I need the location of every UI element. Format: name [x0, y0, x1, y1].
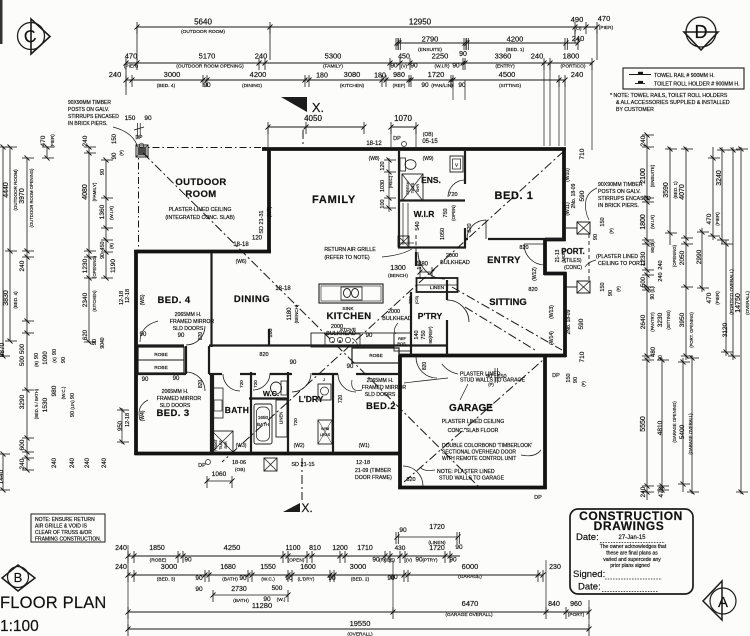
svg-text:WITH REMOTE CONTROL UNIT: WITH REMOTE CONTROL UNIT	[442, 456, 516, 462]
svg-text:3970: 3970	[19, 188, 26, 204]
svg-text:(CS): (CS)	[414, 295, 419, 304]
svg-text:(BED. 4): (BED. 4)	[157, 83, 176, 89]
svg-text:750: 750	[443, 208, 449, 217]
svg-text:CLEAR OF TRUSS &/OR: CLEAR OF TRUSS &/OR	[35, 530, 92, 536]
svg-text:3080: 3080	[344, 70, 361, 79]
svg-text:(OUTDOOR ROOM OPENING): (OUTDOOR ROOM OPENING)	[29, 168, 34, 227]
svg-text:12-18: 12-18	[356, 460, 370, 466]
svg-text:(PORTICO): (PORTICO)	[561, 64, 586, 70]
svg-text:4500: 4500	[499, 70, 516, 79]
svg-text:SITTING: SITTING	[489, 297, 526, 308]
svg-text:(W10): (W10)	[565, 168, 571, 182]
svg-text:90: 90	[347, 364, 354, 370]
svg-text:3950: 3950	[679, 312, 686, 327]
svg-text:90: 90	[70, 393, 76, 399]
svg-text:B: B	[14, 570, 23, 585]
svg-text:The owner acknowledges that: The owner acknowledges that	[600, 544, 667, 550]
svg-text:(PTRY): (PTRY)	[423, 558, 438, 563]
svg-text:90: 90	[52, 349, 58, 355]
svg-text:(PORT. OPENING): (PORT. OPENING)	[689, 312, 694, 348]
svg-text:90: 90	[195, 586, 203, 593]
svg-text:(REFER TO NOTE): (REFER TO NOTE)	[324, 255, 370, 261]
svg-text:(W.I.R): (W.I.R)	[109, 206, 114, 220]
svg-text:90: 90	[290, 360, 297, 366]
svg-text:90: 90	[142, 377, 149, 383]
svg-text:NOTE: ENSURE RETURN: NOTE: ENSURE RETURN	[35, 517, 95, 523]
svg-text:DOUBLE COLORBOND 'TIMBERLOOK': DOUBLE COLORBOND 'TIMBERLOOK'	[442, 443, 532, 449]
svg-text:470: 470	[40, 135, 47, 146]
svg-text:500: 500	[641, 276, 647, 287]
svg-text:SD 21-31: SD 21-31	[259, 210, 265, 233]
svg-text:(FAMILY): (FAMILY)	[92, 182, 97, 201]
svg-text:POS.: POS.	[397, 341, 406, 346]
svg-text:4810: 4810	[657, 420, 664, 435]
svg-text:(P): (P)	[609, 228, 614, 234]
svg-text:A: A	[718, 594, 728, 611]
svg-text:(REF): (REF)	[393, 83, 406, 89]
svg-text:12950: 12950	[409, 18, 432, 27]
svg-text:(SITTING): (SITTING)	[499, 83, 522, 89]
svg-text:DP: DP	[136, 135, 144, 141]
svg-text:500: 500	[272, 585, 283, 592]
svg-text:IN BRICK PIERS.: IN BRICK PIERS.	[598, 203, 639, 209]
svg-text:ENTRY: ENTRY	[487, 255, 521, 266]
svg-text:470: 470	[125, 52, 138, 61]
svg-text:90: 90	[390, 63, 398, 70]
svg-text:1190: 1190	[110, 259, 117, 273]
svg-text:3120: 3120	[722, 322, 729, 337]
svg-text:KITCHEN: KITCHEN	[326, 311, 371, 322]
svg-text:(BED. 1): (BED. 1)	[673, 181, 678, 199]
svg-text:1100: 1100	[285, 545, 300, 552]
svg-text:240: 240	[82, 135, 89, 146]
svg-text:240: 240	[85, 457, 91, 468]
svg-text:ROBE: ROBE	[154, 365, 168, 371]
svg-text:SINK: SINK	[342, 306, 354, 312]
svg-text:90: 90	[184, 557, 192, 564]
svg-text:(ENSUITE): (ENSUITE)	[650, 164, 655, 187]
svg-text:(GARAGE): (GARAGE)	[458, 574, 482, 580]
svg-text:DOOR FRAME): DOOR FRAME)	[355, 475, 392, 481]
svg-text:POSTS ON GALV.: POSTS ON GALV.	[598, 189, 641, 195]
svg-text:(PAN/LIN): (PAN/LIN)	[431, 83, 453, 89]
svg-text:1030: 1030	[380, 180, 386, 192]
svg-text:5400: 5400	[679, 424, 686, 439]
svg-text:(BENCH): (BENCH)	[388, 273, 408, 279]
svg-text:2065MM H.: 2065MM H.	[367, 378, 394, 384]
svg-text:V: V	[455, 163, 458, 168]
svg-text:240: 240	[640, 486, 647, 497]
svg-text:980: 980	[51, 385, 58, 396]
svg-text:ROBE: ROBE	[154, 352, 168, 358]
svg-text:820: 820	[198, 332, 204, 341]
svg-text:BULKHEAD: BULKHEAD	[382, 316, 412, 322]
svg-text:820: 820	[259, 352, 268, 358]
svg-text:19550: 19550	[350, 619, 371, 628]
svg-text:CONC. SLAB FLOOR: CONC. SLAB FLOOR	[448, 428, 499, 434]
svg-text:(W.C.): (W.C.)	[61, 386, 66, 399]
svg-text:SHR: SHR	[416, 184, 420, 192]
svg-text:2640: 2640	[640, 314, 647, 329]
svg-text:5170: 5170	[199, 52, 216, 61]
svg-text:820: 820	[422, 362, 428, 371]
svg-text:4200: 4200	[250, 70, 267, 79]
svg-text:90: 90	[34, 353, 40, 359]
svg-text:(PIER): (PIER)	[50, 134, 55, 148]
svg-text:90: 90	[366, 333, 373, 339]
svg-text:1300: 1300	[390, 265, 406, 272]
svg-text:950: 950	[118, 420, 124, 431]
svg-text:2250: 2250	[432, 52, 449, 61]
svg-text:4200: 4200	[507, 35, 524, 44]
svg-text:230: 230	[549, 564, 561, 571]
svg-text:150: 150	[497, 374, 506, 380]
svg-text:720: 720	[338, 395, 344, 404]
svg-text:ENS.: ENS.	[421, 175, 441, 185]
svg-text:90: 90	[195, 575, 203, 582]
svg-text:(W9): (W9)	[423, 156, 434, 162]
svg-text:(INTEGRATED CONC. SLAB): (INTEGRATED CONC. SLAB)	[165, 215, 235, 221]
svg-text:750: 750	[421, 330, 427, 339]
svg-text:11280: 11280	[252, 601, 272, 610]
svg-text:DRAWINGS: DRAWINGS	[594, 519, 665, 533]
svg-text:100: 100	[380, 199, 386, 208]
svg-text:(LIN): (LIN)	[70, 400, 75, 410]
svg-text:2000: 2000	[331, 324, 343, 330]
svg-text:90: 90	[203, 82, 211, 89]
svg-text:820: 820	[198, 380, 204, 389]
svg-text:DP: DP	[534, 495, 542, 501]
svg-text:240: 240	[658, 272, 664, 281]
svg-text:90X90MM TIMBER: 90X90MM TIMBER	[68, 100, 111, 106]
svg-text:(BED. 3): (BED. 3)	[157, 577, 176, 583]
svg-text:150: 150	[566, 373, 572, 382]
svg-text:J: J	[323, 377, 325, 382]
svg-text:(K): (K)	[52, 357, 57, 363]
svg-text:(PLASTER LINED: (PLASTER LINED	[596, 254, 638, 260]
svg-text:(PANTRY): (PANTRY)	[650, 312, 655, 332]
svg-text:(W6): (W6)	[236, 259, 247, 265]
svg-text:3230: 3230	[657, 312, 664, 327]
svg-text:90: 90	[486, 374, 492, 380]
svg-text:(P): (P)	[581, 381, 586, 387]
svg-text:ROBE: ROBE	[369, 353, 383, 359]
svg-text:8870: 8870	[0, 342, 6, 357]
svg-text:Date:: Date:	[578, 582, 601, 593]
svg-text:90: 90	[100, 253, 106, 259]
svg-text:2No. 18-09: 2No. 18-09	[566, 309, 572, 334]
svg-text:POSTS ON GALV.: POSTS ON GALV.	[68, 107, 109, 113]
svg-text:SLD DOORS: SLD DOORS	[365, 392, 396, 398]
svg-text:SHR: SHR	[224, 441, 228, 449]
svg-text:(W.I.R): (W.I.R)	[650, 215, 655, 229]
svg-text:150: 150	[112, 133, 118, 144]
svg-text:710: 710	[579, 148, 586, 159]
svg-text:180: 180	[374, 73, 386, 80]
svg-text:90: 90	[452, 63, 460, 70]
svg-text:90: 90	[61, 357, 67, 363]
svg-text:1230: 1230	[82, 258, 89, 273]
svg-text:240: 240	[658, 260, 664, 269]
svg-text:(OPEN): (OPEN)	[288, 558, 305, 564]
svg-text:90 (L): 90 (L)	[650, 286, 656, 299]
svg-text:(BATH): (BATH)	[222, 577, 238, 583]
svg-text:12-18: 12-18	[125, 289, 131, 303]
svg-text:(OUTDOOR ROOM): (OUTDOOR ROOM)	[13, 169, 18, 211]
svg-text:240: 240	[109, 70, 122, 79]
svg-text:590: 590	[578, 318, 585, 329]
svg-text:BY CUSTOMER: BY CUSTOMER	[616, 107, 654, 113]
svg-text:STUD WALLS TO GARAGE: STUD WALLS TO GARAGE	[439, 476, 505, 482]
svg-text:140: 140	[414, 330, 420, 339]
svg-text:3290: 3290	[19, 394, 26, 409]
svg-text:2000: 2000	[446, 253, 458, 259]
svg-text:470: 470	[598, 14, 611, 23]
svg-text:GARAGE: GARAGE	[449, 403, 493, 414]
svg-text:TILES: TILES	[411, 182, 415, 193]
svg-text:1720: 1720	[429, 524, 445, 531]
svg-text:(PIER): (PIER)	[715, 291, 720, 305]
svg-text:(OB): (OB)	[235, 467, 246, 473]
svg-text:DINING: DINING	[234, 294, 270, 305]
svg-text:1530: 1530	[42, 397, 49, 412]
svg-text:4050: 4050	[304, 114, 322, 123]
svg-text:SD 21-15: SD 21-15	[291, 462, 314, 468]
svg-text:1180: 1180	[287, 307, 293, 321]
svg-text:SLD DOORS: SLD DOORS	[160, 403, 191, 409]
svg-text:(PORT): (PORT)	[568, 612, 585, 618]
svg-text:DP: DP	[552, 373, 560, 379]
svg-text:(W5): (W5)	[140, 294, 146, 305]
svg-text:BED. 4: BED. 4	[157, 295, 190, 306]
svg-text:1800: 1800	[563, 52, 580, 61]
svg-text:(OUTDOOR ROOM OPENING): (OUTDOOR ROOM OPENING)	[176, 64, 244, 70]
svg-text:IN BRICK PIERS.: IN BRICK PIERS.	[68, 121, 107, 127]
svg-text:3000: 3000	[161, 562, 178, 571]
svg-text:(P): (P)	[488, 382, 494, 387]
svg-text:150: 150	[125, 115, 136, 122]
svg-text:1050: 1050	[440, 228, 446, 240]
svg-text:4440: 4440	[3, 182, 10, 198]
svg-text:90: 90	[593, 234, 599, 240]
svg-text:180: 180	[316, 73, 328, 80]
svg-text:(BENCH): (BENCH)	[294, 304, 299, 323]
svg-text:90: 90	[399, 527, 407, 534]
svg-text:DP: DP	[198, 463, 206, 469]
svg-text:D: D	[695, 22, 708, 42]
svg-text:2790: 2790	[422, 35, 439, 44]
svg-text:(OB): (OB)	[423, 132, 434, 138]
svg-text:820: 820	[406, 477, 415, 483]
svg-text:90: 90	[173, 376, 180, 382]
svg-text:120: 120	[252, 236, 263, 242]
svg-text:(OPENING): (OPENING)	[92, 255, 97, 278]
svg-text:720: 720	[253, 380, 258, 388]
svg-text:(OVERALL): (OVERALL)	[745, 291, 750, 315]
svg-text:AIR GRILLE & VOID IS: AIR GRILLE & VOID IS	[35, 524, 88, 530]
svg-text:5550: 5550	[640, 416, 647, 432]
svg-text:(OPENING): (OPENING)	[672, 244, 677, 267]
svg-text:820: 820	[519, 245, 528, 251]
svg-text:(PIER): (PIER)	[599, 25, 614, 31]
svg-text:4250: 4250	[224, 543, 241, 552]
svg-text:3240: 3240	[716, 170, 723, 186]
svg-text:6000: 6000	[462, 562, 479, 571]
svg-text:(P): (P)	[616, 286, 621, 292]
svg-text:FRAMED MIRROR: FRAMED MIRROR	[157, 396, 202, 402]
svg-text:1230: 1230	[640, 251, 647, 266]
svg-text:90X90MM TIMBER: 90X90MM TIMBER	[598, 182, 643, 188]
svg-text:3000: 3000	[164, 70, 181, 79]
svg-text:FLOOR PLAN: FLOOR PLAN	[0, 594, 107, 612]
svg-text:820: 820	[467, 223, 473, 232]
svg-text:(BED. 5 / BATH): (BED. 5 / BATH)	[34, 388, 39, 419]
svg-text:(W.I.R): (W.I.R)	[435, 64, 450, 70]
svg-text:(W13): (W13)	[549, 305, 555, 319]
svg-text:prior plans signed: prior plans signed	[610, 563, 650, 569]
svg-text:500: 500	[20, 355, 26, 366]
svg-text:(KITCHEN): (KITCHEN)	[340, 83, 365, 89]
svg-text:1650: 1650	[258, 415, 269, 420]
svg-text:1:100: 1:100	[0, 618, 39, 635]
svg-text:470: 470	[706, 292, 713, 303]
svg-text:620: 620	[83, 329, 89, 340]
svg-text:820: 820	[528, 287, 537, 293]
svg-text:(R): (R)	[34, 360, 39, 366]
svg-text:5640: 5640	[194, 18, 212, 27]
svg-text:1720: 1720	[428, 70, 445, 79]
svg-text:480: 480	[651, 346, 657, 357]
svg-text:450: 450	[398, 54, 410, 61]
svg-text:SECTIONAL OVERHEAD DOOR: SECTIONAL OVERHEAD DOOR	[442, 450, 516, 456]
svg-text:(W12): (W12)	[532, 267, 538, 281]
svg-text:430: 430	[395, 545, 406, 552]
svg-text:120: 120	[380, 161, 386, 170]
svg-text:2No. 18-09: 2No. 18-09	[571, 183, 577, 208]
svg-text:18-18: 18-18	[233, 242, 249, 248]
svg-text:W.I.R: W.I.R	[414, 209, 435, 219]
svg-text:(W3): (W3)	[236, 443, 247, 449]
svg-text:4070: 4070	[679, 184, 686, 200]
svg-text:(ENTRY): (ENTRY)	[495, 64, 515, 70]
svg-text:9040: 9040	[100, 337, 106, 348]
svg-text:90: 90	[70, 411, 76, 417]
svg-text:FRESH: FRESH	[406, 181, 410, 194]
svg-text:240: 240	[70, 457, 76, 468]
svg-text:720: 720	[293, 418, 298, 426]
svg-text:(V): (V)	[401, 64, 408, 69]
svg-text:BULKHEAD: BULKHEAD	[326, 331, 356, 337]
svg-text:980: 980	[393, 72, 405, 79]
svg-text:these are final plans as: these are final plans as	[606, 551, 658, 557]
svg-text:NOTE: PLASTER LINED: NOTE: PLASTER LINED	[437, 469, 495, 475]
svg-text:3360: 3360	[495, 52, 512, 61]
svg-text:OUTDOOR: OUTDOOR	[175, 177, 226, 188]
svg-text:21-09 (TIMBER: 21-09 (TIMBER	[355, 468, 391, 474]
svg-text:150: 150	[600, 217, 606, 226]
svg-text:27-Jan-15: 27-Jan-15	[618, 535, 646, 541]
svg-text:BED. 3: BED. 3	[156, 408, 189, 419]
svg-text:240: 240	[571, 70, 584, 79]
svg-text:SLD DOORS: SLD DOORS	[173, 326, 204, 332]
svg-text:2730: 2730	[231, 586, 247, 593]
svg-text:2100: 2100	[640, 168, 647, 184]
svg-text:(GARAGE OVERALL): (GARAGE OVERALL)	[445, 612, 493, 618]
svg-text:LINEN: LINEN	[279, 412, 284, 424]
svg-text:(GARAGE OPENING): (GARAGE OPENING)	[672, 401, 677, 443]
svg-text:TOILET ROLL HOLDER # 900MM H.: TOILET ROLL HOLDER # 900MM H.	[654, 82, 740, 88]
svg-text:240: 240	[19, 458, 26, 469]
svg-text:180: 180	[418, 262, 429, 268]
svg-text:(W.): (W.)	[277, 597, 286, 603]
svg-text:Date:: Date:	[576, 532, 599, 543]
svg-text:90: 90	[573, 377, 579, 383]
svg-text:(CONC): (CONC)	[564, 265, 582, 271]
svg-text:& ALL ACCESSORIES SUPPLIED & I: & ALL ACCESSORIES SUPPLIED & INSTALLED	[616, 100, 730, 106]
svg-text:90: 90	[459, 51, 467, 58]
svg-text:90: 90	[112, 152, 118, 159]
svg-text:05-15: 05-15	[422, 139, 438, 145]
svg-text:18-18: 18-18	[275, 286, 291, 292]
svg-text:1200: 1200	[332, 545, 348, 552]
svg-text:(W1): (W1)	[359, 443, 370, 449]
svg-text:960: 960	[570, 601, 582, 608]
svg-text:2340: 2340	[82, 292, 89, 307]
svg-text:90: 90	[144, 115, 152, 122]
svg-text:12-18: 12-18	[119, 291, 125, 305]
svg-text:240: 240	[115, 564, 127, 571]
svg-text:6470: 6470	[462, 599, 479, 608]
svg-text:L'DRY: L'DRY	[299, 394, 324, 404]
svg-text:720: 720	[239, 380, 244, 388]
svg-text:90: 90	[449, 557, 457, 564]
svg-text:14750: 14750	[735, 293, 742, 313]
svg-text:590: 590	[579, 190, 586, 201]
svg-text:240: 240	[19, 260, 26, 271]
svg-text:FRAMED MIRROR: FRAMED MIRROR	[170, 319, 215, 325]
svg-text:12-18: 12-18	[125, 413, 131, 427]
svg-text:18-12: 18-12	[366, 141, 382, 147]
svg-text:470: 470	[706, 213, 713, 224]
svg-text:FRAMED MIRROR: FRAMED MIRROR	[362, 385, 407, 391]
svg-text:(W8): (W8)	[369, 156, 380, 162]
svg-text:180: 180	[268, 328, 274, 337]
svg-text:500: 500	[20, 343, 26, 354]
svg-text:2000: 2000	[388, 309, 400, 315]
svg-text:(BED. 2): (BED. 2)	[351, 577, 370, 583]
svg-text:Signed:: Signed:	[573, 569, 605, 580]
svg-text:(W14): (W14)	[549, 331, 555, 345]
svg-text:BULKHEAD: BULKHEAD	[440, 260, 470, 266]
svg-text:LINEN: LINEN	[430, 285, 445, 291]
svg-text:1720: 1720	[429, 545, 445, 552]
svg-text:STIRRUPS ENCASED: STIRRUPS ENCASED	[68, 114, 119, 120]
svg-text:(MOB): (MOB)	[561, 249, 566, 263]
svg-text:ROOM: ROOM	[185, 189, 216, 200]
svg-text:FROST: FROST	[214, 439, 218, 451]
svg-text:FAMILY: FAMILY	[312, 194, 356, 206]
svg-text:(TILES): (TILES)	[564, 258, 582, 264]
svg-text:150: 150	[600, 282, 606, 291]
svg-text:3590: 3590	[663, 182, 670, 198]
svg-text:2050: 2050	[679, 250, 686, 265]
svg-text:540: 540	[415, 221, 421, 230]
svg-text:90: 90	[140, 332, 147, 338]
svg-text:90: 90	[92, 339, 98, 345]
svg-text:(DINING): (DINING)	[242, 83, 262, 89]
svg-text:90: 90	[390, 574, 398, 581]
svg-text:2065MM H.: 2065MM H.	[162, 389, 189, 395]
